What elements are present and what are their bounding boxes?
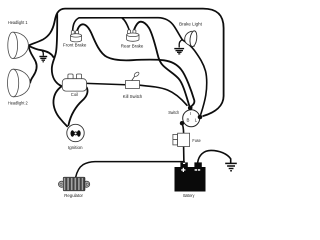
svg-text:Headlight 2: Headlight 2 xyxy=(8,101,28,106)
wire regulator to battery + tab xyxy=(76,162,185,178)
battery xyxy=(175,162,206,191)
coil xyxy=(62,74,86,91)
front brake switch xyxy=(70,31,81,42)
rear brake switch xyxy=(127,30,139,41)
wire fuse bottom to battery + tab xyxy=(183,146,185,162)
svg-text:Kill Switch: Kill Switch xyxy=(123,94,143,99)
svg-text:I: I xyxy=(190,111,191,116)
svg-text:Fuse: Fuse xyxy=(192,138,201,143)
svg-text:Rear Brake: Rear Brake xyxy=(121,44,144,49)
headlight H1 xyxy=(8,32,29,58)
headlight H2 xyxy=(8,69,31,97)
wire drop from top bus down to coil left cap xyxy=(52,14,62,86)
wire kill switch right to switch top terminal xyxy=(140,85,187,105)
svg-text:Coil: Coil xyxy=(71,92,78,97)
wire front brake right prong sweeping down to switch top terminal xyxy=(77,24,194,106)
ignition xyxy=(67,124,84,141)
svg-text:Ignition: Ignition xyxy=(68,145,83,150)
wire switch B terminal down through fuse xyxy=(182,124,183,134)
brake light lamp xyxy=(185,30,198,47)
wire headlight1 junction to ground G1 and onward merge xyxy=(29,46,54,57)
wire coil bottom-right down to ignition xyxy=(69,88,88,126)
svg-text:Brake Light: Brake Light xyxy=(179,22,203,27)
fuse xyxy=(173,133,190,146)
wire coil right to kill switch left xyxy=(87,83,126,84)
regulator xyxy=(59,177,90,190)
wire outer top bus: headlight junction up across top, down right side to switch L terminal xyxy=(29,9,224,116)
wire inner bus: front brake left prong across top to brake light vertex xyxy=(73,18,183,40)
ground G1 (headlights) xyxy=(39,50,47,62)
wire rear brake right prong sweeping down to switch top terminal xyxy=(134,22,189,106)
wire headlight1 junction down to headlight2 vertex xyxy=(29,46,37,82)
svg-text:B: B xyxy=(187,117,190,122)
kill switch xyxy=(125,71,139,88)
svg-text:Switch: Switch xyxy=(168,110,180,115)
switch (ignition key switch) xyxy=(180,106,203,127)
svg-text:Battery: Battery xyxy=(183,193,195,198)
wire battery - tab arc to ground G3 xyxy=(198,150,231,162)
ground G2 (brake light) xyxy=(174,40,184,54)
ground G3 (battery) xyxy=(225,163,237,170)
svg-text:Regulator: Regulator xyxy=(64,193,83,198)
wire rear brake left prong up to inner bus xyxy=(122,18,129,30)
wire brake light vertex down to switch L terminal xyxy=(182,40,206,115)
wire coil left cap down to ignition xyxy=(53,86,67,126)
svg-text:Headlight 1: Headlight 1 xyxy=(8,20,28,25)
svg-text:Front Brake: Front Brake xyxy=(63,43,87,48)
